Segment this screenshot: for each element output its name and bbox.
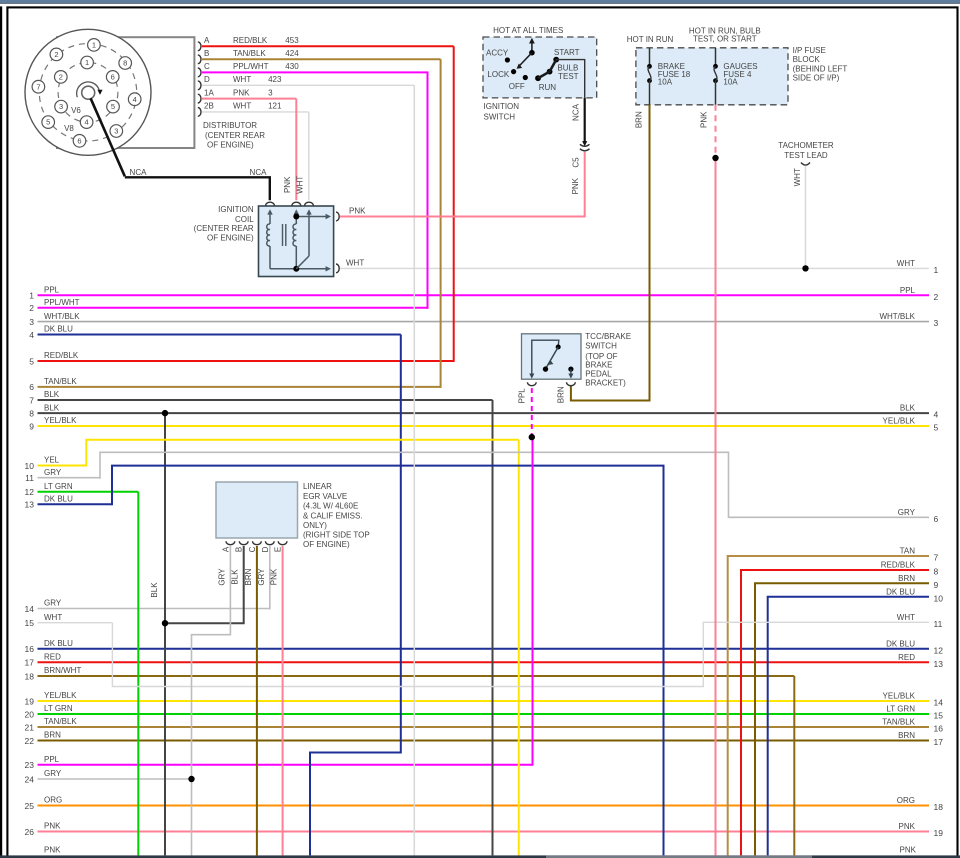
svg-text:LOCK: LOCK bbox=[487, 70, 509, 79]
svg-text:9: 9 bbox=[29, 421, 34, 431]
svg-text:16: 16 bbox=[25, 644, 35, 654]
wire PPL/WHT row2 riser to distributor C bbox=[427, 72, 429, 308]
wire DK BLU row13 path bbox=[112, 466, 664, 856]
distributor inner dashed ring bbox=[58, 62, 118, 122]
svg-text:COIL: COIL bbox=[235, 215, 254, 224]
svg-text:12: 12 bbox=[934, 645, 944, 655]
svg-text:GRY: GRY bbox=[898, 508, 916, 517]
svg-text:2B: 2B bbox=[204, 102, 214, 111]
wire row 4 DK BLU bbox=[38, 334, 401, 336]
svg-text:PPL: PPL bbox=[44, 755, 60, 764]
distributor V8 terminal 2 bbox=[50, 48, 63, 61]
wire BRN EGR pin C drop bbox=[256, 546, 258, 855]
svg-text:V6: V6 bbox=[71, 106, 81, 115]
svg-text:TAN/BLK: TAN/BLK bbox=[882, 718, 915, 727]
wire PNK 1A drop to coil bbox=[295, 99, 297, 201]
svg-text:NCA: NCA bbox=[130, 168, 148, 177]
svg-text:DK BLU: DK BLU bbox=[886, 587, 915, 596]
svg-text:YEL/BLK: YEL/BLK bbox=[44, 416, 77, 425]
wire row 16 DK BLU bbox=[38, 648, 930, 650]
svg-text:14: 14 bbox=[934, 698, 944, 708]
wire WHT distributor D drop bbox=[413, 85, 415, 855]
svg-text:2: 2 bbox=[59, 73, 63, 82]
TCC brake switch box bbox=[522, 334, 582, 379]
svg-text:8: 8 bbox=[29, 408, 34, 418]
svg-text:TEST: TEST bbox=[558, 72, 579, 81]
svg-text:6: 6 bbox=[29, 382, 34, 392]
svg-text:I/P FUSE: I/P FUSE bbox=[793, 46, 826, 55]
svg-text:C: C bbox=[248, 546, 257, 552]
svg-text:WHT: WHT bbox=[296, 176, 305, 194]
svg-text:WHT: WHT bbox=[233, 75, 251, 84]
coil top connector arcs bbox=[266, 202, 275, 205]
svg-text:2: 2 bbox=[934, 292, 939, 302]
svg-text:LT GRN: LT GRN bbox=[44, 482, 73, 491]
svg-text:21: 21 bbox=[25, 722, 35, 732]
wire PNK EGR pin E drop bbox=[282, 546, 284, 855]
svg-text:WHT/BLK: WHT/BLK bbox=[879, 312, 915, 321]
wire LT GRN row12 drop bbox=[137, 492, 139, 856]
svg-text:(CENTER REAR: (CENTER REAR bbox=[194, 224, 254, 233]
svg-text:TAN/BLK: TAN/BLK bbox=[44, 377, 77, 386]
svg-text:YEL/BLK: YEL/BLK bbox=[883, 417, 916, 426]
svg-text:PNK: PNK bbox=[44, 846, 61, 855]
svg-text:PNK: PNK bbox=[270, 568, 279, 585]
svg-text:6: 6 bbox=[111, 73, 115, 82]
svg-text:GRY: GRY bbox=[257, 568, 266, 586]
EGR bottom connector arcs bbox=[226, 541, 235, 544]
svg-text:ORG: ORG bbox=[897, 796, 915, 805]
svg-text:13: 13 bbox=[25, 500, 35, 510]
left outer edge line bbox=[0, 6, 2, 858]
svg-text:18: 18 bbox=[934, 802, 944, 812]
svg-text:7: 7 bbox=[29, 395, 34, 405]
wire row 9 YEL/BLK bbox=[38, 425, 930, 427]
svg-text:SIDE OF I/P): SIDE OF I/P) bbox=[793, 74, 840, 83]
svg-text:3: 3 bbox=[29, 317, 34, 327]
svg-text:13: 13 bbox=[934, 659, 944, 669]
fuse block box bbox=[636, 48, 788, 105]
svg-text:ORG: ORG bbox=[44, 796, 62, 805]
svg-text:1: 1 bbox=[92, 41, 96, 50]
svg-text:GRY: GRY bbox=[44, 769, 62, 778]
svg-text:LINEAR: LINEAR bbox=[303, 482, 332, 491]
distributor V8 terminal 7 bbox=[32, 80, 45, 93]
fuse GAUGES FUSE 4 10A bbox=[715, 48, 717, 66]
svg-text:8: 8 bbox=[123, 59, 127, 68]
svg-text:5: 5 bbox=[46, 118, 50, 127]
wire PNK coil output to C5 bbox=[340, 152, 585, 217]
svg-text:423: 423 bbox=[268, 75, 282, 84]
svg-text:BRN: BRN bbox=[635, 111, 644, 128]
svg-text:SWITCH: SWITCH bbox=[585, 342, 617, 351]
distributor outer dashed ring bbox=[39, 44, 136, 141]
svg-text:GRY: GRY bbox=[44, 468, 62, 477]
svg-text:YEL/BLK: YEL/BLK bbox=[44, 691, 77, 700]
svg-text:D: D bbox=[204, 75, 210, 84]
wire YEL row10 link bbox=[86, 440, 518, 467]
top window bar bbox=[0, 0, 960, 3]
svg-text:10A: 10A bbox=[723, 78, 738, 87]
svg-text:ONLY): ONLY) bbox=[303, 521, 327, 530]
svg-text:BLK: BLK bbox=[900, 404, 916, 413]
distributor V8 terminal 5 bbox=[42, 116, 55, 129]
svg-text:D: D bbox=[261, 546, 270, 552]
coil secondary winding bbox=[295, 211, 297, 224]
wire WHT tachometer lead bbox=[805, 166, 807, 269]
svg-text:WHT/BLK: WHT/BLK bbox=[44, 312, 80, 321]
svg-text:1: 1 bbox=[29, 291, 34, 301]
svg-text:24: 24 bbox=[25, 774, 35, 784]
svg-text:1: 1 bbox=[934, 265, 939, 275]
distributor pin 2B wire WHT 121 bbox=[198, 108, 201, 117]
svg-text:(BEHIND LEFT: (BEHIND LEFT bbox=[793, 64, 848, 73]
wire row 25 ORG bbox=[38, 805, 930, 807]
svg-text:START: START bbox=[554, 48, 580, 57]
svg-text:PNK: PNK bbox=[349, 206, 366, 215]
svg-text:(RIGHT SIDE TOP: (RIGHT SIDE TOP bbox=[303, 531, 370, 540]
svg-text:16: 16 bbox=[934, 724, 944, 734]
svg-text:10: 10 bbox=[934, 593, 944, 603]
svg-text:TEST LEAD: TEST LEAD bbox=[784, 151, 828, 160]
svg-text:4: 4 bbox=[133, 95, 137, 104]
svg-text:YEL: YEL bbox=[44, 456, 60, 465]
svg-text:430: 430 bbox=[285, 62, 299, 71]
svg-text:BULB: BULB bbox=[557, 63, 578, 72]
svg-text:PPL: PPL bbox=[900, 286, 916, 295]
wire row 7 BLK bbox=[38, 399, 493, 401]
svg-text:DK BLU: DK BLU bbox=[44, 495, 73, 504]
ignition switch box bbox=[483, 37, 597, 98]
svg-text:1: 1 bbox=[85, 58, 89, 67]
distributor V6 terminal 2 bbox=[55, 71, 68, 84]
svg-text:A: A bbox=[204, 36, 210, 45]
svg-text:NCA: NCA bbox=[250, 168, 268, 177]
svg-text:2: 2 bbox=[29, 303, 34, 313]
svg-text:19: 19 bbox=[934, 828, 944, 838]
wire NCA distributor to coil bbox=[91, 98, 125, 176]
wire BLK branch to EGR pin B bbox=[165, 546, 244, 623]
bottom bar bbox=[0, 855, 960, 858]
svg-text:17: 17 bbox=[25, 658, 35, 668]
svg-text:7: 7 bbox=[934, 553, 939, 563]
svg-text:PNK: PNK bbox=[44, 822, 61, 831]
distributor cap circle bbox=[25, 29, 151, 155]
svg-text:LT GRN: LT GRN bbox=[44, 704, 73, 713]
svg-text:17: 17 bbox=[934, 737, 944, 747]
svg-text:HOT AT ALL TIMES: HOT AT ALL TIMES bbox=[493, 26, 563, 35]
distributor V6 terminal 3 bbox=[55, 100, 68, 113]
svg-text:3: 3 bbox=[59, 102, 63, 111]
distributor rotation arc bbox=[77, 82, 100, 97]
distributor V8 terminal 8 bbox=[119, 57, 132, 70]
svg-text:BLK: BLK bbox=[44, 390, 60, 399]
svg-text:SWITCH: SWITCH bbox=[484, 112, 516, 121]
wire row 21 TAN/BLK bbox=[38, 726, 930, 728]
svg-text:26: 26 bbox=[25, 827, 35, 837]
svg-text:BRN: BRN bbox=[557, 386, 566, 403]
wire BLK row8 vertical branch at x=165 bbox=[164, 413, 166, 855]
coil PNK tap bbox=[296, 216, 328, 218]
wire row 14 GRY bbox=[38, 608, 270, 610]
svg-text:HOT IN RUN: HOT IN RUN bbox=[627, 35, 674, 44]
svg-text:4: 4 bbox=[85, 118, 89, 127]
wire BLK row7 drop bbox=[492, 400, 494, 855]
svg-text:12: 12 bbox=[25, 487, 35, 497]
distributor V6 terminal 6 bbox=[106, 71, 119, 84]
wire NCA switch output bbox=[584, 98, 586, 142]
ignition switch feed arrow bbox=[531, 41, 533, 53]
distributor V6 terminal 5 bbox=[107, 100, 120, 113]
wire BRN/WHT row18 drop bbox=[793, 676, 795, 855]
svg-text:A: A bbox=[221, 546, 230, 552]
distributor connector box bbox=[57, 37, 194, 148]
svg-text:& CALIF EMISS.: & CALIF EMISS. bbox=[303, 511, 363, 520]
svg-text:8: 8 bbox=[934, 567, 939, 577]
EGR valve box bbox=[216, 482, 298, 538]
svg-text:C: C bbox=[204, 62, 210, 71]
svg-text:PPL: PPL bbox=[518, 388, 527, 404]
svg-text:(CENTER REAR: (CENTER REAR bbox=[205, 131, 265, 140]
svg-text:BLK: BLK bbox=[231, 569, 240, 585]
wire GRY row11 path to terminal 6 bbox=[100, 452, 929, 517]
svg-text:BRN: BRN bbox=[898, 731, 915, 740]
wire RED/BLK row5 riser to distributor A bbox=[453, 46, 455, 362]
svg-text:IGNITION: IGNITION bbox=[218, 205, 254, 214]
svg-text:RED/BLK: RED/BLK bbox=[881, 561, 916, 570]
distributor pin 1A wire PNK 3 bbox=[198, 94, 201, 103]
svg-text:25: 25 bbox=[25, 801, 35, 811]
svg-text:RED: RED bbox=[898, 653, 915, 662]
svg-text:V8: V8 bbox=[64, 124, 74, 133]
distributor V6 terminal 1 bbox=[81, 56, 94, 69]
wire row 3 WHT/BLK bbox=[38, 321, 930, 323]
TCC bottom connector arcs bbox=[527, 382, 536, 385]
wire row 13 DK BLU bbox=[38, 503, 113, 505]
svg-text:LT GRN: LT GRN bbox=[886, 705, 915, 714]
svg-text:5: 5 bbox=[111, 102, 115, 111]
svg-text:WHT: WHT bbox=[897, 259, 915, 268]
ignition switch output line bbox=[556, 60, 585, 98]
svg-text:DISTRIBUTOR: DISTRIBUTOR bbox=[203, 121, 257, 130]
wire row 23 PPL bbox=[38, 764, 533, 766]
wire PPL row23 riser solid part bbox=[532, 437, 534, 766]
distributor rotor center bbox=[82, 86, 95, 99]
svg-text:15: 15 bbox=[25, 618, 35, 628]
junction PPL dashed/solid bbox=[529, 434, 535, 440]
svg-text:DK BLU: DK BLU bbox=[44, 639, 73, 648]
svg-text:PPL/WHT: PPL/WHT bbox=[44, 298, 80, 307]
svg-text:B: B bbox=[204, 49, 209, 58]
svg-text:BLOCK: BLOCK bbox=[793, 55, 821, 64]
svg-text:DK BLU: DK BLU bbox=[886, 639, 915, 648]
svg-text:121: 121 bbox=[268, 102, 282, 111]
svg-text:B: B bbox=[235, 547, 244, 552]
svg-text:RUN: RUN bbox=[539, 83, 557, 92]
distributor V8 terminal 6 bbox=[73, 135, 86, 148]
svg-text:7: 7 bbox=[36, 82, 40, 91]
svg-text:OF ENGINE): OF ENGINE) bbox=[207, 140, 254, 149]
wire row 2 PPL/WHT bbox=[38, 307, 429, 309]
junction PNK fuse wire bbox=[712, 155, 718, 161]
svg-text:10: 10 bbox=[25, 461, 35, 471]
svg-text:15: 15 bbox=[934, 711, 944, 721]
svg-text:RED: RED bbox=[44, 652, 61, 661]
svg-text:BRACKET): BRACKET) bbox=[585, 379, 626, 388]
wire GRY row14 riser to EGR pin D bbox=[269, 546, 271, 610]
svg-text:WHT: WHT bbox=[897, 613, 915, 622]
wire row 15 WHT bbox=[38, 622, 113, 624]
tachometer connector bbox=[801, 163, 810, 166]
svg-text:11: 11 bbox=[25, 473, 34, 483]
ignition switch position contacts bbox=[505, 57, 510, 62]
svg-text:WHT: WHT bbox=[346, 259, 364, 268]
svg-text:BLK: BLK bbox=[150, 582, 159, 598]
wire row 19 YEL/BLK bbox=[38, 700, 930, 702]
wire row 20 LT GRN bbox=[38, 713, 930, 715]
svg-text:TAN/BLK: TAN/BLK bbox=[233, 49, 266, 58]
distributor V8 terminal 1 bbox=[88, 39, 101, 52]
coil core lines bbox=[282, 224, 284, 246]
junction GRY row24 bbox=[188, 776, 194, 782]
wire row 8 BLK bbox=[38, 412, 930, 414]
wire row 26 PNK bbox=[38, 831, 930, 833]
svg-text:GRY: GRY bbox=[217, 568, 226, 586]
wire YEL long drop bbox=[518, 440, 520, 856]
svg-text:BLK: BLK bbox=[44, 403, 60, 412]
op ignition coil box bbox=[259, 206, 334, 277]
wire PNK solid drop bbox=[715, 158, 717, 855]
svg-text:EGR VALVE: EGR VALVE bbox=[303, 492, 347, 501]
svg-text:PNK: PNK bbox=[571, 177, 580, 194]
wire row 24 GRY bbox=[38, 778, 192, 780]
svg-text:OF ENGINE): OF ENGINE) bbox=[303, 540, 350, 549]
svg-text:C5: C5 bbox=[572, 157, 581, 168]
wire row 12 LT GRN bbox=[38, 491, 139, 493]
svg-text:23: 23 bbox=[25, 760, 35, 770]
svg-text:22: 22 bbox=[25, 736, 35, 746]
svg-text:BRN: BRN bbox=[244, 568, 253, 585]
distributor pin D wire WHT 423 bbox=[198, 81, 201, 90]
svg-text:BRN: BRN bbox=[898, 574, 915, 583]
svg-text:E: E bbox=[274, 547, 283, 552]
wire TAN terminal 7 bbox=[728, 556, 929, 855]
fuse BRAKE FUSE 18 10A bbox=[649, 48, 651, 66]
svg-text:TEST, OR START: TEST, OR START bbox=[693, 35, 757, 44]
wire RED/BLK terminal 8 bbox=[741, 570, 929, 855]
svg-text:PNK: PNK bbox=[283, 176, 292, 193]
coil interior primary winding bbox=[269, 211, 271, 224]
svg-text:ACCY: ACCY bbox=[486, 48, 509, 57]
svg-text:WHT: WHT bbox=[233, 102, 251, 111]
distributor V8 terminal 3 bbox=[110, 125, 123, 138]
svg-text:NCA: NCA bbox=[572, 103, 581, 121]
svg-text:5: 5 bbox=[29, 356, 34, 366]
svg-text:OFF: OFF bbox=[509, 82, 525, 91]
wire TAN/BLK row6 riser to distributor B bbox=[440, 59, 442, 388]
svg-text:OF ENGINE): OF ENGINE) bbox=[207, 234, 254, 243]
coil output arcs bbox=[336, 212, 339, 221]
distributor V8 terminal 4 bbox=[128, 93, 141, 106]
svg-text:TACHOMETER: TACHOMETER bbox=[778, 141, 834, 150]
svg-text:PNK: PNK bbox=[233, 88, 250, 97]
wire row 11 GRY bbox=[38, 477, 101, 479]
wire row 22 BRN bbox=[38, 740, 930, 742]
svg-text:IGNITION: IGNITION bbox=[484, 102, 520, 111]
svg-text:WHT: WHT bbox=[793, 168, 802, 186]
svg-text:3: 3 bbox=[114, 127, 118, 136]
svg-text:PNK: PNK bbox=[700, 111, 709, 128]
wire row 10 YEL bbox=[38, 465, 87, 467]
ignition switch RUN-START blade bbox=[538, 60, 556, 79]
coil bottom rail bbox=[270, 268, 328, 270]
svg-text:TAN/BLK: TAN/BLK bbox=[44, 717, 77, 726]
wire BRN terminal 9 bbox=[755, 583, 929, 855]
svg-text:DK BLU: DK BLU bbox=[44, 325, 73, 334]
junction BLK at EGR branch bbox=[162, 620, 168, 626]
wire row 1 PPL bbox=[38, 294, 930, 296]
wire DK BLU terminal 10 bbox=[768, 597, 929, 856]
svg-text:BRN/WHT: BRN/WHT bbox=[44, 666, 81, 675]
wire PNK dashed from gauges fuse bbox=[715, 105, 717, 158]
svg-text:1A: 1A bbox=[204, 88, 214, 97]
wire row 6 TAN/BLK bbox=[38, 386, 441, 388]
svg-text:10A: 10A bbox=[658, 78, 673, 87]
svg-text:WHT: WHT bbox=[44, 613, 62, 622]
wire row 17 RED bbox=[38, 661, 930, 663]
svg-text:PNK: PNK bbox=[899, 822, 916, 831]
distributor pin B wire TAN/BLK 424 bbox=[198, 55, 201, 64]
wire WHT coil output to terminal 1 bbox=[340, 267, 929, 269]
svg-text:TAN: TAN bbox=[900, 547, 916, 556]
svg-text:18: 18 bbox=[25, 671, 35, 681]
svg-text:3: 3 bbox=[934, 318, 939, 328]
junction row8 BLK bbox=[162, 410, 168, 416]
svg-text:YEL/BLK: YEL/BLK bbox=[883, 692, 916, 701]
wire WHT 2B drop to coil bbox=[308, 112, 310, 200]
connector C5 bbox=[580, 144, 590, 146]
svg-text:BRN: BRN bbox=[44, 731, 61, 740]
svg-text:BRAKE: BRAKE bbox=[585, 360, 612, 369]
svg-text:(4.3L W/ 4L60E: (4.3L W/ 4L60E bbox=[303, 501, 358, 510]
svg-text:PNK: PNK bbox=[900, 846, 917, 855]
distributor pin A wire RED/BLK 453 bbox=[198, 42, 201, 51]
svg-text:20: 20 bbox=[25, 709, 35, 719]
svg-text:3: 3 bbox=[268, 88, 273, 97]
svg-text:2: 2 bbox=[54, 50, 58, 59]
wire DK BLU row4 drop with jog bbox=[310, 335, 401, 856]
wire BRN from brake fuse to TCC switch bbox=[571, 105, 650, 401]
svg-text:GRY: GRY bbox=[44, 599, 62, 608]
svg-text:PEDAL: PEDAL bbox=[585, 369, 612, 378]
wire PPL dashed riser to TCC switch bbox=[531, 388, 533, 437]
wire row 18 BRN/WHT bbox=[38, 675, 795, 677]
svg-text:6: 6 bbox=[934, 514, 939, 524]
svg-text:PPL: PPL bbox=[44, 286, 60, 295]
coil third pin lead bbox=[308, 211, 310, 256]
junction WHT tachometer bbox=[802, 265, 808, 271]
svg-text:RED/BLK: RED/BLK bbox=[233, 36, 268, 45]
svg-text:6: 6 bbox=[77, 136, 81, 145]
wire WHT row15 detour to terminal 11 bbox=[112, 622, 929, 686]
svg-text:19: 19 bbox=[25, 696, 35, 706]
svg-text:9: 9 bbox=[934, 580, 939, 590]
svg-text:424: 424 bbox=[285, 49, 299, 58]
svg-text:14: 14 bbox=[25, 604, 35, 614]
svg-text:4: 4 bbox=[934, 410, 939, 420]
TCC switch internal path bbox=[532, 340, 559, 376]
svg-text:4: 4 bbox=[29, 330, 34, 340]
